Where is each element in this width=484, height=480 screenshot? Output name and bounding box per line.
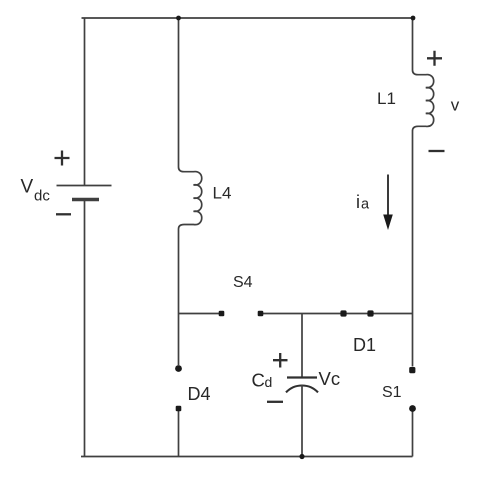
battery Vdc long plate	[57, 185, 112, 187]
minus sign at capacitor Cd (Vc polarity)	[267, 401, 283, 403]
svg-text:dc: dc	[34, 188, 50, 205]
svg-text:d: d	[265, 374, 273, 390]
wire S1 lower lead	[412, 411, 414, 457]
diode D4 lower terminal dot	[176, 406, 182, 412]
switch S1 upper terminal dot	[409, 367, 415, 373]
capacitor Cd top plate	[287, 376, 317, 378]
svg-text:L4: L4	[213, 184, 232, 203]
node junction dot top (mid branch / top bus)	[176, 16, 181, 21]
svg-text:S4: S4	[233, 274, 253, 291]
wire left branch lower (Vdc negative lead)	[84, 200, 86, 457]
switch S4 left terminal dot	[219, 311, 225, 317]
svg-text:V: V	[21, 177, 34, 198]
node junction dot bottom (Cd / bottom bus)	[299, 454, 304, 459]
switch S1 lower terminal dot	[409, 405, 416, 412]
wire bottom horizontal bus	[81, 456, 413, 458]
node corner dot top right	[411, 16, 416, 21]
switch S4 right terminal dot	[258, 311, 264, 317]
svg-text:i: i	[356, 192, 360, 212]
plus sign at capacitor Cd (Vc polarity)	[273, 353, 288, 368]
wire D4 lower lead	[178, 411, 180, 457]
inductor L4 with middle vertical wire	[179, 18, 202, 365]
svg-text:D1: D1	[353, 335, 376, 355]
wire Cd lower lead	[301, 385, 303, 457]
minus sign at battery Vdc	[56, 213, 71, 215]
svg-text:L1: L1	[377, 89, 396, 108]
svg-text:C: C	[252, 369, 265, 390]
inductor L1 with right vertical wire	[413, 18, 434, 367]
battery Vdc short plate	[72, 198, 99, 201]
diode D1 right terminal dot	[367, 310, 373, 316]
wire Cd upper lead	[301, 314, 303, 378]
current arrow ia	[383, 175, 393, 231]
minus sign at inductor L1 (v polarity)	[429, 150, 445, 152]
capacitor Cd curved plate	[286, 385, 318, 392]
svg-text:D4: D4	[188, 384, 211, 404]
wire S4 left lead	[179, 313, 222, 315]
svg-text:a: a	[361, 197, 370, 213]
svg-text:Vc: Vc	[319, 368, 341, 389]
wire left branch upper (Vdc positive lead)	[84, 18, 86, 186]
diode D4 upper terminal dot	[175, 365, 182, 372]
wire top horizontal bus	[82, 17, 414, 19]
svg-text:S1: S1	[382, 384, 402, 401]
plus sign at inductor L1 (v polarity)	[427, 51, 442, 66]
plus sign at battery Vdc	[55, 151, 70, 166]
svg-text:v: v	[451, 96, 460, 115]
wire mid horizontal (S4 right dot to right branch)	[261, 313, 413, 315]
diode D1 left terminal dot	[340, 310, 346, 316]
